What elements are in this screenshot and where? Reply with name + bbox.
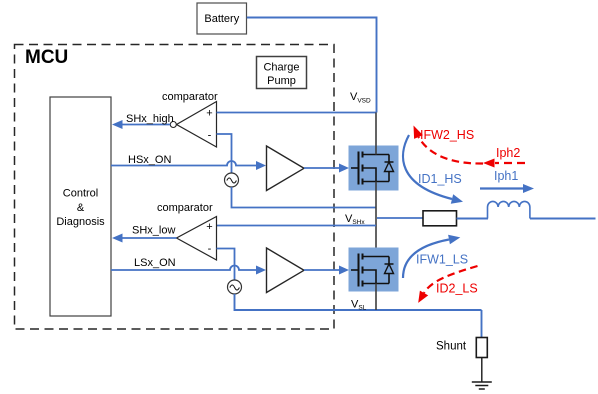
svg-text:Diagnosis: Diagnosis [56,216,105,228]
svg-text:Iph1: Iph1 [494,169,518,183]
wire U1 minus input [217,134,232,173]
svg-text:&: & [77,202,85,214]
resistor R1 [423,211,457,226]
wire HSx_ON [111,154,266,170]
wire A1 output to Q1 gate [304,164,349,173]
svg-text:+: + [206,108,212,120]
current arrow IFW2_HS [414,126,484,164]
svg-text:VSHx: VSHx [345,213,365,226]
wire phase to resistor R1 [377,217,423,219]
svg-text:HSx_ON: HSx_ON [128,154,171,166]
filter W1 wave symbol [225,173,239,187]
wire L1 to load [530,218,596,220]
wire R1 to inductor L1 [457,218,489,220]
svg-text:VVSD: VVSD [350,91,371,105]
wire W2 to VSL node [235,294,482,310]
wire LSx_ON [111,257,266,275]
MCU block outline [15,45,335,330]
resistor shunt [476,338,487,358]
wire W1 to VSHx node [232,187,377,208]
charge pump block [257,57,307,89]
wire U1 plus input (VVSD sense) [217,112,377,114]
comparator U2 [177,217,217,261]
svg-text:SHx_high: SHx_high [126,113,174,125]
svg-text:MCU: MCU [25,47,68,68]
current arrow ID2_LS [418,266,478,303]
wire battery to VVSD rail [247,18,377,113]
gate driver A2 [267,248,305,293]
wire U2 plus input (VSHx sense) [217,225,377,227]
svg-text:Battery: Battery [204,13,239,25]
svg-text:Charge: Charge [263,62,299,74]
svg-text:Shunt: Shunt [436,341,467,353]
svg-text:Control: Control [63,188,98,200]
svg-text:ID2_LS: ID2_LS [436,282,478,296]
svg-text:Pump: Pump [267,75,296,87]
inductor L1 [488,201,530,218]
svg-text:comparator: comparator [157,202,213,214]
svg-text:+: + [206,221,212,233]
current arrow Iph2 [483,146,525,168]
transistor Q1 high side [349,146,399,191]
svg-text:LSx_ON: LSx_ON [134,257,176,269]
wire VSD rail drain Q1 [375,113,377,155]
wire VSL to shunt [481,310,483,338]
svg-text:IFW1_LS: IFW1_LS [416,253,468,267]
battery B1 [197,3,247,34]
svg-text:VSL: VSL [351,299,367,312]
current arrow IFW1_LS [403,235,468,278]
transistor Q2 low side [349,248,399,292]
current arrow ID1_HS [403,135,463,204]
wire shunt to ground [481,358,483,383]
wire Q1 source to phase node [375,182,377,257]
wire Q2 source to VSL node [375,284,377,311]
svg-text:SHx_low: SHx_low [132,225,175,237]
svg-text:IFW2_HS: IFW2_HS [420,128,474,142]
wire SHx_high [112,113,174,129]
wire U2 minus input [217,249,235,281]
svg-text:ID1_HS: ID1_HS [418,172,462,186]
svg-text:Iph2: Iph2 [496,146,520,160]
current arrow Iph1 [480,169,534,193]
control & diagnosis block [50,97,111,316]
svg-text:-: - [208,243,212,255]
ground [472,382,492,389]
svg-text:-: - [208,130,212,142]
wire A2 output to Q2 gate [304,266,349,275]
gate driver A1 [267,146,305,191]
wire SHx_low [112,225,177,243]
svg-text:comparator: comparator [162,91,218,103]
comparator U1 [170,102,216,148]
filter W2 wave symbol [228,280,242,294]
